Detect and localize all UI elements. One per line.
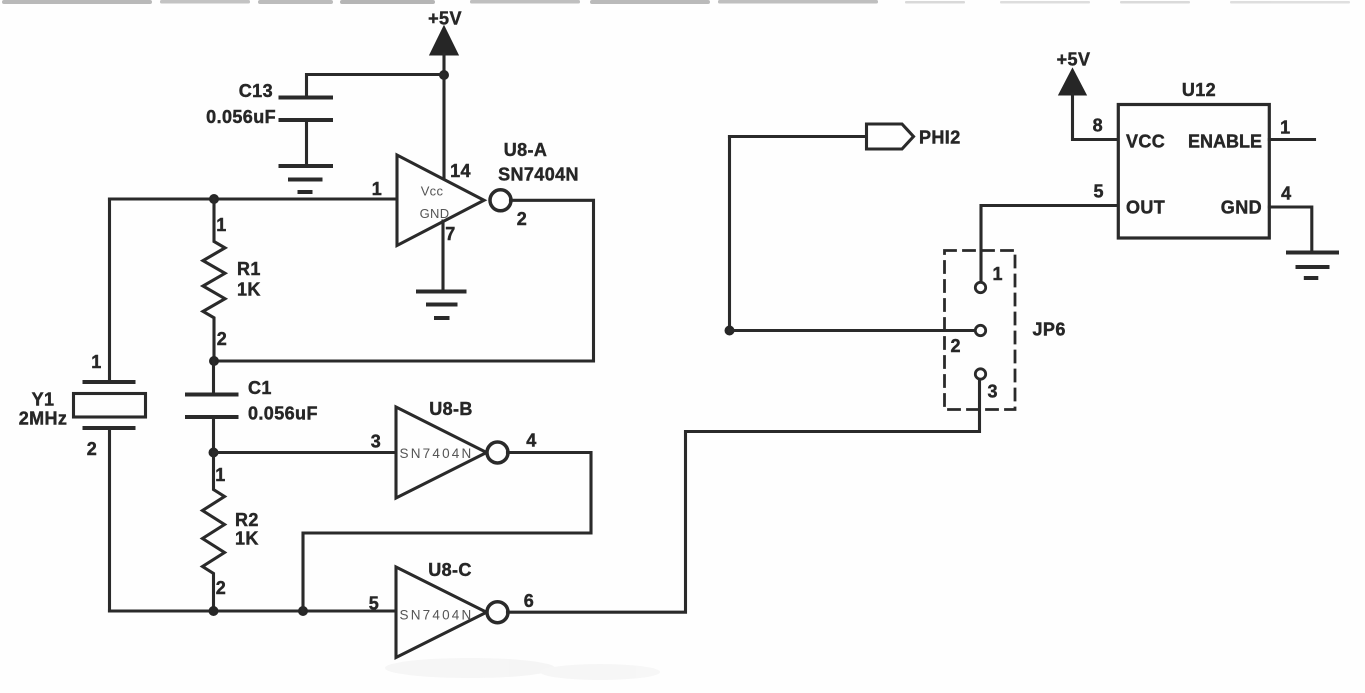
svg-text:2: 2	[87, 439, 97, 459]
node junction +5V / C13 / pin14	[439, 70, 449, 80]
node junction U8-B loop / bottom net	[298, 606, 308, 616]
jumper JP6 dashed box	[945, 251, 1016, 410]
svg-text:U8-B: U8-B	[429, 399, 473, 419]
wire C13 top to +5V junction	[307, 75, 445, 98]
resistor R1	[203, 199, 261, 361]
inverter U8-A	[397, 155, 484, 246]
svg-text:Y1: Y1	[32, 390, 55, 410]
node junction input / R1 top	[209, 194, 219, 204]
svg-text:6: 6	[524, 591, 534, 611]
wire +5V to U12 VCC pin 8	[1073, 94, 1119, 140]
svg-text:1: 1	[215, 465, 225, 485]
svg-text:JP6: JP6	[1033, 320, 1066, 340]
svg-text:GND: GND	[1221, 198, 1262, 218]
svg-text:2: 2	[951, 336, 961, 356]
svg-text:1: 1	[216, 215, 226, 235]
svg-text:5: 5	[369, 594, 379, 614]
svg-text:SN7404N: SN7404N	[400, 608, 474, 623]
wire U12 GND pin 4 to ground	[1269, 207, 1311, 253]
svg-text:2: 2	[217, 329, 227, 349]
svg-text:3: 3	[371, 432, 381, 452]
svg-text:PHI2: PHI2	[919, 128, 961, 148]
node junction PHI2 / JP6 pin 2	[725, 326, 735, 336]
wire pin 14 of U8-A	[442, 75, 445, 178]
svg-text:U8-A: U8-A	[504, 140, 548, 160]
wire to JP6 pin 2	[730, 329, 975, 332]
wire PHI2 branch vertical	[728, 137, 731, 331]
svg-text:R1: R1	[237, 259, 261, 279]
svg-text:1: 1	[1280, 118, 1290, 138]
svg-text:R2: R2	[235, 510, 259, 530]
svg-text:3: 3	[988, 382, 998, 402]
svg-text:SN7404N: SN7404N	[498, 165, 579, 185]
svg-text:2: 2	[517, 209, 527, 229]
svg-text:4: 4	[1281, 184, 1291, 204]
wire PHI2 flag lead	[730, 135, 867, 138]
wire C13 to ground	[305, 120, 308, 166]
wire U8-B input	[214, 451, 397, 454]
svg-text:7: 7	[445, 224, 455, 244]
svg-text:U8-C: U8-C	[428, 560, 472, 580]
output bubble U8-A	[490, 190, 511, 211]
svg-text:14: 14	[450, 161, 471, 181]
wire left rail bottom (crystal pin 2 to bottom net)	[108, 428, 111, 611]
inverter U8-B	[396, 399, 487, 498]
power +5V symbol (U12)	[1057, 50, 1091, 95]
wire +5V down to VCC junction	[442, 54, 445, 75]
oscillator U12	[1118, 80, 1269, 238]
inverter U8-C	[396, 560, 487, 658]
output bubble U8-C	[487, 602, 508, 623]
svg-text:8: 8	[1093, 116, 1103, 136]
svg-text:1K: 1K	[237, 280, 261, 300]
svg-text:2: 2	[216, 578, 226, 598]
svg-text:+5V: +5V	[1057, 50, 1091, 70]
wire pin 7 of U8-A	[441, 221, 444, 291]
node junction C1 / R2 / U8-B input	[209, 448, 219, 458]
wire U8-B output loop to bottom net	[303, 453, 591, 612]
svg-text:2MHz: 2MHz	[19, 409, 68, 429]
net flag PHI2	[867, 124, 961, 149]
svg-text:Vcc: Vcc	[421, 184, 444, 199]
svg-text:1K: 1K	[235, 529, 259, 549]
wire U12 ENABLE pin 1	[1269, 138, 1314, 141]
wire U12 OUT to JP6 pin 1	[981, 206, 1118, 283]
svg-text:1: 1	[91, 352, 101, 372]
svg-text:VCC: VCC	[1126, 132, 1165, 152]
wire U8-A input net (crystal top / R1 / pin 1)	[110, 197, 398, 200]
wire bottom net (crystal / R2 / U8-C input)	[110, 609, 397, 612]
svg-text:0.056uF: 0.056uF	[206, 107, 276, 127]
svg-text:4: 4	[526, 431, 536, 451]
output bubble U8-B	[487, 442, 508, 463]
svg-text:1: 1	[372, 179, 382, 199]
JP6 pin 2	[951, 325, 986, 356]
node junction R2 bottom	[209, 606, 219, 616]
svg-text:5: 5	[1093, 182, 1103, 202]
svg-text:C13: C13	[239, 81, 273, 101]
wire C1 bottom to junction	[212, 417, 215, 453]
svg-text:C1: C1	[248, 378, 272, 398]
wire R1 bottom to C1	[212, 361, 215, 395]
svg-text:+5V: +5V	[428, 9, 462, 29]
crystal Y1	[19, 352, 146, 459]
JP6 pin 1	[975, 264, 1003, 293]
svg-text:ENABLE: ENABLE	[1188, 132, 1262, 152]
svg-text:0.056uF: 0.056uF	[248, 404, 318, 424]
ground below U8-A	[418, 292, 465, 319]
ground below C13	[281, 166, 332, 192]
node junction R1 / C1 / feedback	[209, 356, 219, 366]
ground below U12	[1288, 253, 1337, 279]
wire U8-C output to JP6 pin 3	[508, 380, 980, 613]
resistor R2	[203, 453, 259, 612]
wire U8-A output feedback loop	[214, 200, 594, 361]
JP6 pin 3	[975, 369, 998, 402]
power +5V symbol (left)	[428, 9, 462, 55]
svg-text:1: 1	[993, 264, 1003, 284]
wire left rail top (input to crystal pin 1)	[108, 199, 111, 382]
capacitor C13	[206, 81, 331, 127]
svg-text:OUT: OUT	[1126, 198, 1165, 218]
svg-text:GND: GND	[420, 206, 450, 221]
capacitor C1	[187, 378, 318, 424]
svg-text:SN7404N: SN7404N	[400, 446, 474, 461]
svg-text:U12: U12	[1182, 80, 1216, 100]
